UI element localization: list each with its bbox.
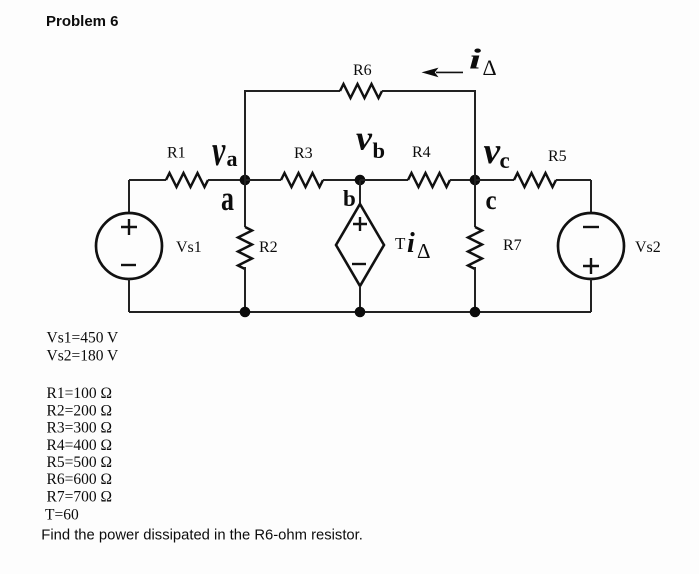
wire right branch top (main rail to Vs2) <box>590 180 592 213</box>
svg-text:R4=400 Ω: R4=400 Ω <box>47 437 112 454</box>
svg-text:R7=700 Ω: R7=700 Ω <box>47 488 112 505</box>
svg-text:Vs1=450 V: Vs1=450 V <box>47 330 120 347</box>
svg-text:R2=200 Ω: R2=200 Ω <box>47 402 112 419</box>
svg-text:R3: R3 <box>294 145 313 162</box>
svg-text:Δ: Δ <box>483 55 497 80</box>
node b junction dot <box>355 175 366 186</box>
wire node a up to top rail <box>245 91 340 180</box>
node voltage label va <box>212 128 238 176</box>
wire node b to R4 <box>360 179 408 181</box>
wire R3 to node b <box>323 179 360 181</box>
svg-text:R5=500 Ω: R5=500 Ω <box>47 454 112 471</box>
svg-text:R7: R7 <box>503 237 522 254</box>
wire left branch bottom (Vs1 to bottom rail) <box>128 279 130 312</box>
wire left branch top (main rail to Vs1) <box>128 180 130 213</box>
resistor R5 <box>514 148 567 187</box>
resistor R6 <box>340 62 382 98</box>
wire dependent source to bottom rail <box>359 286 361 312</box>
wire R5 to right branch <box>556 179 591 181</box>
wire R2 to bottom rail <box>244 267 246 312</box>
svg-text:i: i <box>469 43 482 75</box>
current label i-delta <box>469 43 497 80</box>
dependent source label T i-delta <box>395 228 431 263</box>
svg-text:c: c <box>500 148 510 173</box>
wire right branch bottom (Vs2 to bottom rail) <box>590 279 592 312</box>
wire bottom rail <box>129 311 591 313</box>
svg-text:T=60: T=60 <box>45 506 79 523</box>
resistor R7 <box>468 227 522 269</box>
svg-text:v: v <box>356 119 372 157</box>
junction dot bottom node a <box>240 307 251 318</box>
svg-text:Problem 6: Problem 6 <box>46 13 119 30</box>
node a junction dot <box>240 175 251 186</box>
svg-text:R6=600 Ω: R6=600 Ω <box>47 471 112 488</box>
svg-text:b: b <box>343 186 356 211</box>
resistor R4 <box>408 144 450 187</box>
svg-text:v: v <box>212 128 226 176</box>
svg-text:Find the power dissipated in t: Find the power dissipated in the R6-ohm … <box>41 528 363 544</box>
resistor R3 <box>281 145 323 187</box>
node c junction dot <box>470 175 481 186</box>
wire node a down to R2 <box>244 180 246 227</box>
wire top rail right segment down to node c <box>382 91 475 180</box>
junction dot bottom node b <box>355 307 366 318</box>
svg-text:R2: R2 <box>259 239 278 256</box>
dependent source diamond T i-delta <box>336 204 384 286</box>
svg-text:i: i <box>407 228 415 259</box>
wire node a to R3 <box>245 179 281 181</box>
wire R1 to node a <box>208 179 245 181</box>
svg-text:R1=100 Ω: R1=100 Ω <box>47 385 112 402</box>
wire main horizontal left segment (Vs1 top to R1) <box>129 179 166 181</box>
svg-text:a: a <box>227 146 238 171</box>
current arrow for i-delta <box>422 68 464 78</box>
wire R7 to bottom rail <box>474 267 476 312</box>
svg-text:R6: R6 <box>353 62 372 79</box>
svg-text:Vs1: Vs1 <box>176 239 202 256</box>
voltage source Vs1 <box>96 213 202 279</box>
wire R4 to node c <box>450 179 475 181</box>
svg-text:R4: R4 <box>412 144 431 161</box>
svg-text:a: a <box>221 178 234 218</box>
svg-text:b: b <box>373 138 386 163</box>
node voltage label vc <box>484 131 510 173</box>
resistor R2 <box>238 227 278 269</box>
resistor R1 <box>166 145 208 188</box>
wire node c to R5 <box>475 179 514 181</box>
wire node c down to R7 <box>474 180 476 227</box>
svg-text:v: v <box>484 131 501 172</box>
junction dot bottom node c <box>470 307 481 318</box>
node voltage label vb <box>356 119 385 163</box>
wire node b down to dependent source <box>359 180 361 204</box>
svg-text:R3=300 Ω: R3=300 Ω <box>47 420 112 437</box>
svg-text:Vs2=180 V: Vs2=180 V <box>47 347 120 364</box>
svg-text:Vs2: Vs2 <box>635 239 661 256</box>
svg-text:Δ: Δ <box>417 239 431 263</box>
svg-text:R5: R5 <box>548 148 567 165</box>
svg-text:c: c <box>486 185 497 215</box>
voltage source Vs2 <box>558 213 661 279</box>
svg-text:R1: R1 <box>167 145 186 162</box>
svg-text:T: T <box>395 234 406 253</box>
